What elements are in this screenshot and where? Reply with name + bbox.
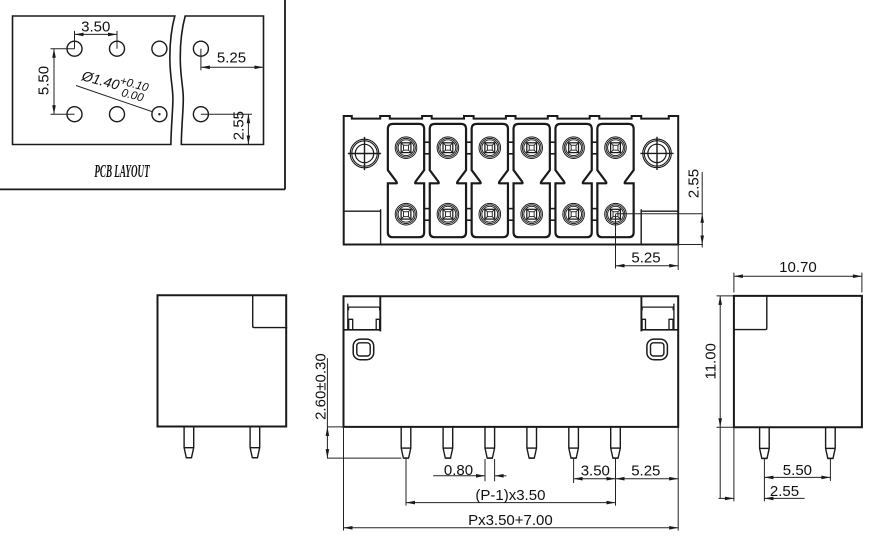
PCB outline right piece with break line [180,16,263,145]
dimension 3.50 hole pitch [75,19,118,49]
front view pin 5 [569,427,579,458]
bridge between poles 5-6 bottom row [592,209,598,221]
bridge between poles 1-2 top row [424,142,430,154]
keying hole left [353,339,374,360]
bridge between poles 4-5 bottom row [550,209,556,221]
bottom-left step notch [344,209,381,244]
svg-text:5.25: 5.25 [631,463,660,480]
left side view [158,295,288,457]
svg-text:3.50: 3.50 [81,19,110,36]
right view pin 1 [760,427,770,458]
dimension 5.50 row pitch [36,49,75,115]
PCB hole top row 3 Ø1.40 [152,41,167,56]
bottom-right step notch [641,209,678,244]
front view left latch [344,296,381,331]
screw terminal 3 top row [479,137,501,159]
svg-text:5.50: 5.50 [36,66,53,95]
dimension 2.55 terminal row to edge (top view) [616,169,705,248]
svg-text:2.55: 2.55 [231,111,248,140]
dimension (P-1)x3.50 overall pin span [406,459,616,506]
bridge between poles 4-5 top row [550,142,556,154]
front view pin 2 [443,427,453,458]
pole cell 5 [555,124,591,237]
screw terminal 5 top row [563,137,585,159]
leader line for hole diameter callout [76,86,153,112]
PCB hole top row 4 Ø1.40 [193,41,208,56]
latch base line [344,329,381,331]
front view body outline [344,296,679,427]
screw terminal 2 bottom row [437,203,459,225]
dimension 3.50 pin pitch [574,459,616,506]
top view outline with tabs [344,116,679,245]
pole cell 4 [514,124,550,237]
svg-text:2.55: 2.55 [770,483,799,500]
drawing sheet frame bottom edge [0,188,285,190]
right view top-left notch [734,296,767,330]
bridge between poles 1-2 bottom row [424,209,430,221]
PCB hole bottom row 2 Ø1.40 [110,107,125,122]
front view right latch [641,296,678,331]
svg-text:5.50: 5.50 [783,462,812,479]
latch foot outer [376,319,379,330]
svg-text:0.80: 0.80 [444,462,473,479]
latch outer wall [640,296,642,331]
screw terminal 6 bottom row [605,203,627,225]
bridge between poles 2-3 bottom row [466,209,472,221]
front view pin 1 [401,427,411,458]
pole cell 1 [388,124,424,237]
PCB hole bottom row 4 Ø1.40 [193,107,208,122]
PCB outline left piece with break line [13,16,175,145]
svg-text:3.50: 3.50 [581,463,610,480]
front view pin 6 [611,427,621,458]
left view body outline [158,295,287,426]
left view top-right notch [253,295,288,327]
right view body outline [734,296,862,427]
svg-text:11.00: 11.00 [702,343,719,379]
label Ø1.40 +0.10/0.00 [78,65,150,105]
latch foot inner [349,319,353,330]
PCB layout view (top-left) [0,0,285,189]
bridge between poles 2-3 top row [466,142,472,154]
left view pin 1 [184,427,194,458]
dimension 0.80 pin width [433,459,506,481]
dimension 5.25 last pin to edge [616,427,679,531]
right side view [702,259,862,502]
dimension 2.55 edge to pin [719,427,805,501]
front view pin 3 [485,427,495,458]
latch foot outer [642,319,645,330]
latch foot inner [669,319,673,330]
svg-text:5.25: 5.25 [217,50,246,67]
center dot of leadered hole [158,113,160,115]
front view pin 4 [527,427,537,458]
latch base line [641,329,678,331]
latch outer wall [379,296,381,331]
pole cell 3 [472,124,508,237]
svg-text:10.70: 10.70 [779,259,817,276]
latch inner wall [673,304,675,330]
PCB hole bottom row 1 Ø1.40 [67,107,82,122]
screw terminal 2 top row [437,137,459,159]
pole cell 2 [430,124,466,237]
front view [313,296,679,530]
mounting hole left [348,137,381,170]
PCB hole top row 2 Ø1.40 [110,41,125,56]
dimension 5.25 terminal to edge (top view) [616,214,679,270]
screw terminal 6 top row [605,137,627,159]
svg-text:2.60±0.30: 2.60±0.30 [313,353,330,420]
screw terminal 1 bottom row [395,203,417,225]
bridge between poles 5-6 top row [592,142,598,154]
svg-text:PCB LAYOUT: PCB LAYOUT [94,162,150,182]
latch spring top [348,307,381,310]
svg-text:2.55: 2.55 [685,169,702,198]
dimension 5.50 pin spacing [764,458,830,501]
latch inner wall [347,304,349,330]
mounting hole right [640,137,673,170]
latch spring top [641,307,674,310]
dimension 10.70 body width [734,259,862,293]
connector top view [344,116,704,270]
screw terminal 5 bottom row [563,203,585,225]
dimension 2.60±0.30 pin standoff [313,353,402,458]
screw terminal 4 top row [521,137,543,159]
left view pin 2 [250,427,260,458]
pole cell 6 [597,124,633,237]
bridge between poles 3-4 bottom row [508,209,514,221]
dimension 5.25 hole to edge [201,49,264,71]
svg-text:(P-1)x3.50: (P-1)x3.50 [475,487,545,504]
dimension 2.55 hole to edge [201,111,252,145]
svg-text:5.25: 5.25 [631,250,660,267]
PCB hole bottom row 3 Ø1.40 [152,107,167,122]
screw terminal 3 bottom row [479,203,501,225]
bridge between poles 3-4 top row [508,142,514,154]
dimension Px3.50+7.00 overall width [344,427,679,531]
svg-text:Px3.50+7.00: Px3.50+7.00 [468,512,553,529]
drawing sheet frame right edge [284,0,286,189]
PCB hole top row 1 Ø1.40 [67,41,82,56]
screw terminal 4 bottom row [521,203,543,225]
right view pin 2 [826,427,836,458]
screw terminal 1 top row [395,137,417,159]
keying hole right [647,339,668,360]
dimension 11.00 body height [702,296,734,499]
